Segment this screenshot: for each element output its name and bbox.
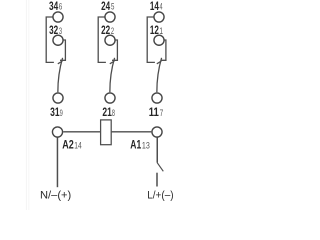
svg-text:A2: A2 xyxy=(62,140,74,152)
svg-text:21: 21 xyxy=(102,107,112,120)
svg-text:5: 5 xyxy=(111,1,115,12)
svg-text:N/–(+): N/–(+) xyxy=(40,189,71,201)
svg-text:24: 24 xyxy=(101,1,110,14)
svg-text:1: 1 xyxy=(159,26,163,36)
svg-text:7: 7 xyxy=(160,108,164,118)
svg-text:14: 14 xyxy=(74,141,82,151)
svg-text:12: 12 xyxy=(150,25,159,38)
svg-text:8: 8 xyxy=(112,107,115,118)
svg-text:34: 34 xyxy=(49,1,58,14)
svg-text:22: 22 xyxy=(101,25,110,38)
svg-text:4: 4 xyxy=(160,1,164,12)
svg-text:13: 13 xyxy=(142,140,150,151)
svg-text:A1: A1 xyxy=(130,139,141,152)
svg-text:31: 31 xyxy=(50,107,60,120)
svg-text:6: 6 xyxy=(59,1,63,12)
svg-text:14: 14 xyxy=(150,1,159,14)
svg-text:2: 2 xyxy=(111,26,114,37)
svg-text:9: 9 xyxy=(60,107,63,118)
svg-text:32: 32 xyxy=(49,25,58,38)
svg-text:3: 3 xyxy=(59,26,62,37)
svg-text:L/+(–): L/+(–) xyxy=(147,189,173,202)
svg-text:11: 11 xyxy=(149,106,159,119)
